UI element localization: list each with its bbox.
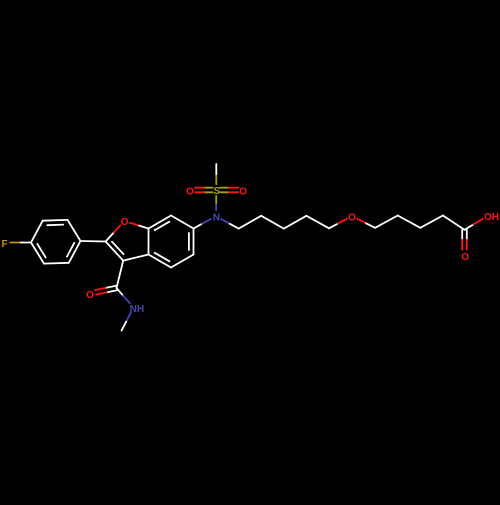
bond ether O-C6 xyxy=(357,219,375,228)
bond phenyl A1-A2 xyxy=(31,221,43,243)
svg-text:O: O xyxy=(121,217,129,228)
bond N-CH2 chain xyxy=(221,219,239,229)
bond amide N-methyl xyxy=(122,313,131,331)
bond furan O1-C2 xyxy=(106,225,121,241)
double bond benzo C6=C5 xyxy=(189,229,194,255)
bond benzo C7-C6 xyxy=(171,216,194,229)
bond C3-amide carbonyl xyxy=(117,261,124,288)
svg-text:OH: OH xyxy=(484,212,499,223)
bond carboxyl C-OH xyxy=(465,219,483,230)
bond phenyl-benzofuran C2 xyxy=(81,240,106,243)
bond amide C-N xyxy=(117,288,130,303)
svg-text:F: F xyxy=(1,239,7,250)
svg-text:O: O xyxy=(86,290,94,301)
svg-text:S: S xyxy=(213,186,220,197)
svg-text:N: N xyxy=(213,212,220,223)
bond chain C9-carboxyl C xyxy=(443,216,465,230)
double bond carboxyl C=O xyxy=(462,230,467,250)
bond chain C4-C5 xyxy=(306,216,329,229)
bond benzo C6-N sulfonamide xyxy=(194,219,211,229)
bond chain C1-C2 xyxy=(239,216,262,229)
bond chain C8-C9 xyxy=(420,216,443,228)
bond furan O1-C7a xyxy=(130,223,149,229)
double bond S=O left xyxy=(195,188,213,193)
svg-text:NH: NH xyxy=(130,304,144,315)
bond S-methyl xyxy=(215,164,217,184)
svg-text:O: O xyxy=(186,186,194,197)
bond chain C5-O ether xyxy=(329,219,347,229)
svg-text:O: O xyxy=(461,252,469,263)
double bond benzo C4=C3a xyxy=(149,253,172,268)
bond chain C3-C4 xyxy=(284,216,307,229)
bond fusion C3a-C7a xyxy=(148,229,150,255)
bond phenyl A3-A4 xyxy=(68,220,81,241)
double bond phenyl A4=A5 xyxy=(67,241,81,263)
bond chain C6-C7 xyxy=(375,216,398,228)
bond furan C3-C3a xyxy=(123,255,148,261)
bond chain C2-C3 xyxy=(261,216,284,229)
bond phenyl A5-A6 xyxy=(44,262,69,265)
svg-text:O: O xyxy=(239,186,247,197)
double bond furan C2=C3 xyxy=(106,242,124,261)
double bond benzo C7a=C7 xyxy=(149,216,172,231)
svg-text:O: O xyxy=(348,212,356,223)
bond F1-C(ring) fluorine to phenyl xyxy=(10,242,31,244)
double bond S=O right xyxy=(220,188,238,193)
bond benzo C5-C4 xyxy=(171,255,194,268)
bond N-S xyxy=(215,196,217,211)
bond chain C7-C8 xyxy=(398,216,421,228)
double bond phenyl A2=A3 xyxy=(43,220,68,225)
double bond phenyl A6=A1 xyxy=(31,243,46,264)
double bond amide C=O xyxy=(95,286,117,295)
